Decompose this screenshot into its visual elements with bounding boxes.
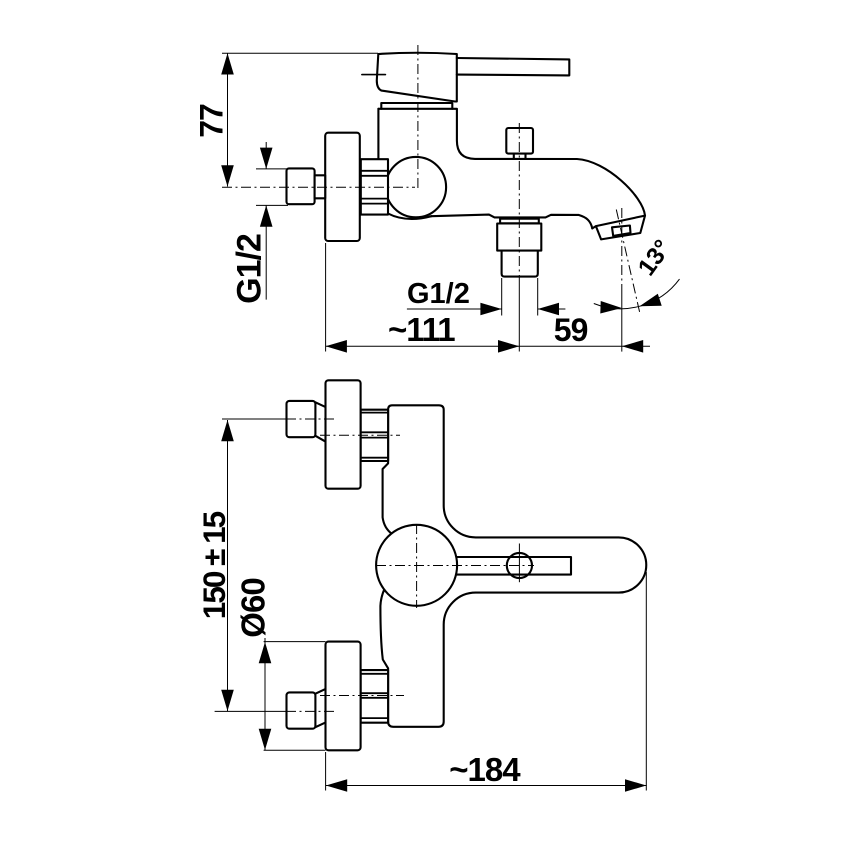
- aerator vertical solid extension: [621, 285, 623, 352]
- arrow G1/2 bottom-right: [538, 303, 559, 316]
- dimension texts: [194, 104, 677, 788]
- screw centerline: [518, 544, 520, 583]
- arrow 13deg right: [638, 294, 662, 313]
- svg-text:13°: 13°: [633, 235, 677, 281]
- top connection axis (front view): [286, 418, 334, 420]
- diverter / outlet axis centerline: [518, 123, 520, 282]
- dim D60 line: [264, 638, 266, 750]
- svg-text:150 ± 15: 150 ± 15: [196, 511, 232, 619]
- shower outlet thread: [502, 251, 538, 277]
- arrow 150 bottom: [221, 690, 234, 711]
- arrow 111 left: [326, 340, 347, 353]
- arrow G1/2 bottom-left: [480, 303, 501, 316]
- body and spout outline: [378, 109, 645, 216]
- arrow G1/2 lower: [260, 205, 273, 226]
- lever screw: [507, 553, 532, 578]
- svg-text:G1/2: G1/2: [407, 278, 470, 310]
- outlet axis solid extension: [518, 282, 520, 352]
- arrow 77 bottom: [221, 165, 234, 186]
- aerator insert: [612, 226, 631, 236]
- ball vertical centerline (front): [416, 524, 418, 608]
- outlet thread extension lines: [502, 278, 538, 316]
- eccentric connector (top view): [287, 168, 315, 204]
- dim 184 line: [326, 785, 647, 787]
- bottom connection axis (front view): [286, 710, 334, 712]
- arrow 111 right: [498, 340, 519, 353]
- diverter knob: [506, 128, 533, 154]
- dim G1/2 left vertical line: [265, 142, 267, 300]
- bottom union nut (front): [361, 670, 389, 723]
- arrow G1/2 upper: [260, 148, 273, 169]
- arrow D60 bottom: [259, 729, 272, 750]
- centerlines (dash-dot): [222, 45, 640, 711]
- top inlet nut axis (front view): [320, 434, 400, 436]
- union nut (top view): [361, 159, 388, 214]
- dim 184 left extension: [325, 752, 327, 791]
- handle pivot tick: [362, 74, 386, 76]
- aerator vertical reference line: [621, 208, 623, 285]
- dim 184 right extension: [645, 572, 647, 791]
- arrow D60 top: [259, 642, 272, 663]
- aerator 13deg axis: [616, 210, 639, 313]
- bottom wall flange (front): [326, 642, 361, 751]
- main body outline with lever stadium: [380, 405, 646, 727]
- svg-text:~184: ~184: [449, 751, 521, 788]
- spout underside: [431, 215, 592, 229]
- dim 150 extensions: [215, 419, 286, 711]
- dim G1/2 bottom line: [407, 308, 566, 310]
- svg-text:G1/2: G1/2: [231, 234, 269, 304]
- shower outlet body: [497, 224, 541, 251]
- inlet axis centerline (top view): [222, 186, 415, 188]
- dim 77 line: [227, 53, 229, 186]
- svg-text:Ø60: Ø60: [235, 578, 272, 637]
- bottom eccentric connector (front): [287, 689, 325, 728]
- handle axis centerline: [417, 45, 419, 190]
- body left edge: [377, 109, 379, 159]
- wall flange (top view): [325, 133, 360, 241]
- cartridge ring: [381, 103, 452, 109]
- dim 150 line: [227, 420, 229, 711]
- dim 77 top extension: [222, 52, 378, 54]
- handle cap: [377, 53, 457, 102]
- arrow 59 right: [622, 340, 643, 353]
- lever bar (plan): [452, 557, 571, 575]
- svg-text:~111: ~111: [388, 311, 455, 348]
- diverter stem: [514, 154, 526, 159]
- dim D60 extensions: [264, 642, 326, 751]
- dim 111 left extension: [325, 243, 327, 352]
- top union nut (front): [361, 410, 389, 461]
- dim 111-59 line: [326, 345, 650, 347]
- arrowheads: [221, 53, 662, 792]
- dim G1/2 left extensions: [256, 169, 288, 206]
- ball joint (top view): [386, 157, 446, 217]
- top wall flange (front): [326, 380, 361, 488]
- svg-text:77: 77: [194, 104, 230, 138]
- shower outlet flange: [500, 219, 539, 224]
- handle lever bar: [457, 58, 570, 75]
- ball (plan): [376, 525, 457, 606]
- arrow 13deg left: [600, 301, 622, 314]
- body under-arc below ball: [388, 214, 431, 219]
- aerator outline: [592, 216, 645, 240]
- bottom inlet nut axis (front view): [320, 695, 404, 697]
- arrow 77 top: [221, 53, 234, 74]
- ball horizontal centerline (front): [376, 565, 534, 567]
- connector neck (top view): [315, 175, 326, 198]
- dimension lines and extension lines: [215, 53, 680, 790]
- svg-text:59: 59: [554, 312, 588, 348]
- arrow 184 right: [625, 779, 646, 792]
- top eccentric connector (front): [287, 401, 325, 441]
- arrow 150 top: [221, 420, 234, 441]
- arrow 184 left: [326, 779, 347, 792]
- angle arc 13deg: [594, 279, 680, 309]
